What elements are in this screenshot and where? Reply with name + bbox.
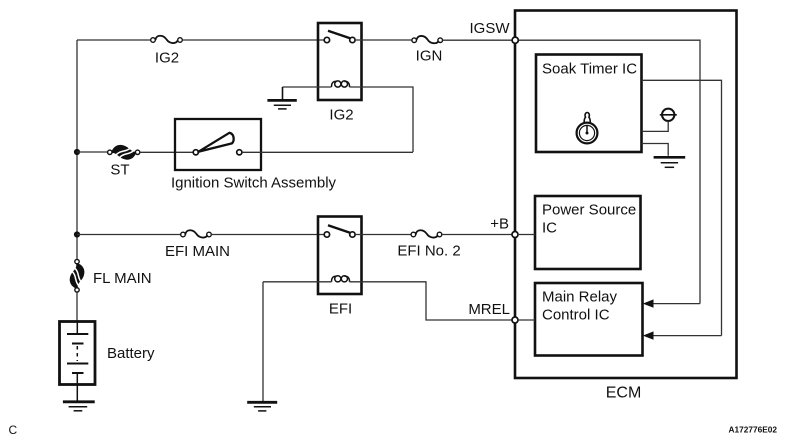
svg-text:Main Relay: Main Relay: [542, 289, 618, 306]
fuse EFI MAIN: [181, 230, 212, 237]
wire: IG2 fuse to IG2 relay: [182, 39, 324, 41]
wire: fuse EFI No.2 to +B node: [442, 234, 513, 236]
relay IG2 coil: [331, 81, 349, 87]
Main Relay Control IC box: [535, 283, 643, 356]
node IGSW: [512, 37, 518, 43]
svg-text:IC: IC: [542, 220, 557, 237]
relay EFI box: [318, 217, 362, 295]
wire: left bus vertical: [76, 40, 78, 259]
ground G3 (EFI relay): [247, 402, 277, 411]
fuse IGN: [412, 36, 443, 43]
relay EFI coil: [331, 276, 349, 282]
circle terminal symbol: [660, 109, 677, 121]
svg-text:Ignition Switch Assembly: Ignition Switch Assembly: [171, 175, 337, 192]
wire: FL MAIN to battery: [76, 292, 78, 321]
wire: MREL into main relay control IC: [518, 319, 535, 321]
fuse IG2: [151, 36, 183, 43]
ground G4 (battery): [63, 402, 95, 411]
svg-text:ST: ST: [110, 162, 129, 179]
relay IG2 switch blade: [328, 31, 350, 38]
svg-text:IG2: IG2: [155, 50, 179, 67]
wire: soak timer ground stub: [642, 144, 669, 156]
fusible link ST: [108, 146, 140, 159]
svg-text:+B: +B: [490, 216, 509, 233]
battery cells: [67, 322, 88, 402]
svg-text:A172776E02: A172776E02: [729, 425, 778, 435]
svg-text:MREL: MREL: [468, 301, 510, 318]
wire: IGSW into ECM to right vertical: [518, 40, 700, 303]
relay IG2 contact circles: [324, 37, 355, 42]
arrow 2 into main relay control IC: [643, 331, 722, 339]
wire: +B into power source IC: [518, 234, 535, 236]
svg-text:Power Source: Power Source: [542, 202, 636, 219]
fuse EFI No. 2: [411, 230, 442, 237]
node MREL: [512, 317, 518, 323]
wire: soak timer output to arrow2 vertical: [642, 80, 722, 335]
svg-text:EFI No. 2: EFI No. 2: [397, 243, 460, 260]
wire: EFI MAIN row: [77, 234, 181, 236]
relay EFI contact circles: [324, 232, 355, 237]
wire: top bus horizontal IG2 row: [77, 39, 151, 41]
wire: ground stub to IG2 coil row: [283, 87, 414, 152]
wire: EFI relay to fuse EFI No.2: [355, 234, 411, 236]
wire: ST to ignition switch box: [140, 151, 194, 153]
wire: EFI ground drop: [262, 282, 264, 401]
node junction ST row: [74, 149, 80, 155]
battery box: [60, 322, 96, 385]
arrow 1 into main relay control IC: [643, 299, 700, 307]
ignition switch assembly box: [175, 119, 261, 170]
wire: fuse IGN to IGSW node: [443, 39, 513, 41]
fusible link FL MAIN: [70, 259, 83, 292]
node +B: [512, 232, 518, 238]
wire: relay IG2 to fuse IGN: [355, 39, 412, 41]
relay IG2 box: [318, 23, 362, 100]
svg-text:Control IC: Control IC: [542, 307, 610, 324]
wire: bus to ST link: [77, 151, 108, 153]
wire: EFI MAIN fuse to EFI relay: [211, 234, 324, 236]
node junction EFI MAIN row: [74, 231, 80, 237]
ECM box: [515, 11, 737, 379]
ground G1 (IG2 relay): [267, 87, 296, 109]
relay EFI switch blade: [328, 225, 350, 232]
wire: EFI coil right to MREL: [350, 282, 513, 320]
svg-text:IG2: IG2: [329, 107, 353, 124]
svg-text:ECM: ECM: [606, 385, 642, 402]
svg-text:Battery: Battery: [107, 345, 155, 362]
svg-text:EFI: EFI: [329, 301, 352, 318]
svg-text:IGN: IGN: [416, 48, 443, 65]
Power Source IC box: [535, 196, 641, 269]
wire: terminal down into soak timer: [642, 121, 669, 131]
svg-text:IGSW: IGSW: [470, 20, 511, 37]
stopwatch symbol: [577, 113, 598, 144]
Soak Timer IC box: [536, 55, 642, 153]
ground G2 (soak timer): [654, 157, 686, 167]
svg-text:FL MAIN: FL MAIN: [93, 270, 152, 287]
ignition switch lever: [198, 133, 233, 152]
ignition switch contacts: [193, 150, 242, 155]
wire: ignition switch output up to IG2 coil: [242, 151, 413, 153]
wire: EFI coil left to ground: [263, 281, 332, 283]
svg-text:Soak Timer IC: Soak Timer IC: [542, 61, 637, 78]
svg-text:C: C: [9, 423, 18, 437]
svg-text:EFI MAIN: EFI MAIN: [165, 243, 230, 260]
